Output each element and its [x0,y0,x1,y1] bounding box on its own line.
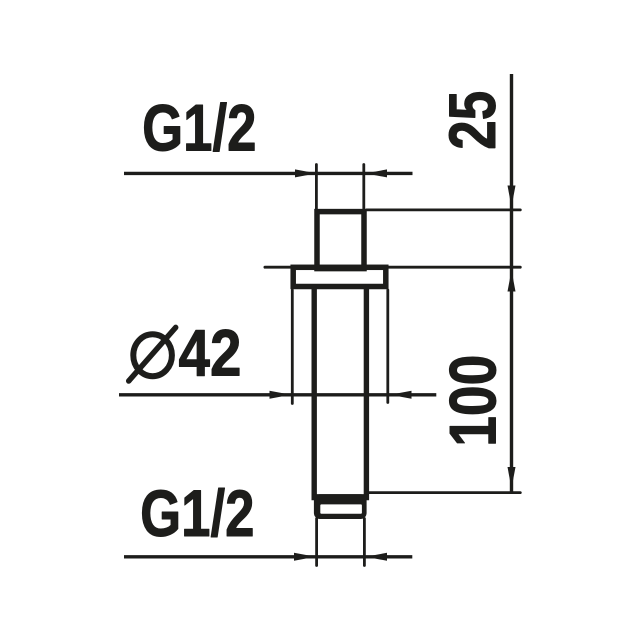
svg-text:25: 25 [435,91,509,150]
pipe bottom edge [312,494,369,497]
bottom thread right edge [363,519,366,566]
diameter symbol circle [133,334,172,376]
extension line stub right [362,165,365,215]
dimension line right vertical 25 and 100 [510,74,513,492]
dimension line diameter 42 [119,393,436,396]
svg-text:42: 42 [179,316,242,390]
arrowhead 100 top [508,270,516,292]
extension line flange bottom left [291,290,294,404]
arrowhead bottom dim right [366,553,388,561]
pipe right wall [364,289,369,500]
bottom nut G1/2 [314,494,367,519]
arrowhead 100 bottom [508,467,516,489]
dimension line bottom G1/2 [124,555,412,558]
arrowhead 25 top [508,186,516,208]
diameter symbol slash [129,327,176,381]
arrowhead dia42 left [270,391,292,399]
ceiling flange Ø42 [293,267,386,286]
top thread stub G1/2 [317,212,364,269]
svg-text:G1/2: G1/2 [140,476,254,550]
extension line flange top right [388,266,520,269]
extension line pipe bottom right [367,491,520,494]
extension line stub top right [367,208,521,211]
svg-text:100: 100 [436,355,510,447]
bottom nut slot [320,504,362,513]
arrowhead top dim right [366,169,388,177]
extension line stub left [315,165,318,215]
bottom thread left edge [315,519,318,566]
arrowhead dia42 right [390,391,412,399]
arrowhead top dim left [295,169,317,177]
extension line flange bottom right [386,290,389,403]
arrowhead bottom dim left [294,553,316,561]
dimension line top G1/2 [124,172,413,175]
svg-text:G1/2: G1/2 [142,91,256,165]
pipe left wall [312,289,317,500]
extension line flange top left [265,266,291,269]
